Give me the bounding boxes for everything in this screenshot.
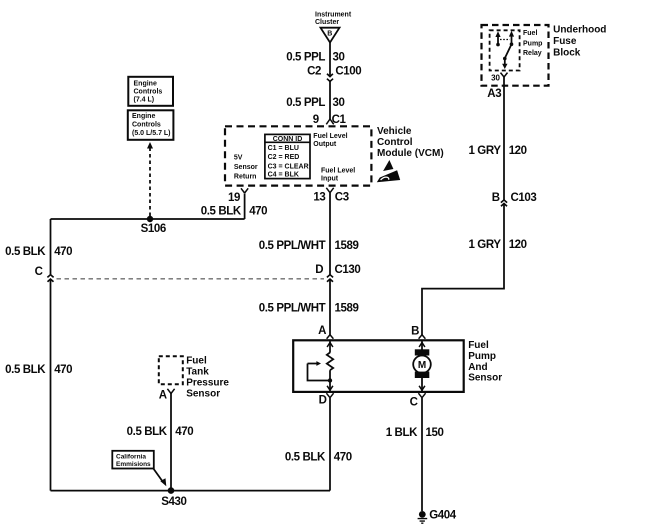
svg-text:Sensor: Sensor [186, 388, 220, 399]
svg-text:C: C [35, 266, 43, 278]
fuel pump and sensor box [293, 340, 464, 392]
relay output arrow down [502, 59, 507, 70]
svg-text:150: 150 [426, 427, 444, 439]
svg-text:Tank: Tank [186, 367, 209, 378]
svg-text:1 BLK: 1 BLK [386, 427, 418, 439]
label fuel tank pressure sensor [186, 356, 229, 400]
motor wire to C terminal [419, 378, 425, 391]
svg-text:0.5 BLK: 0.5 BLK [127, 426, 168, 438]
wire D terminal to bottom wire [329, 398, 331, 491]
svg-text:C103: C103 [511, 192, 537, 204]
connector C male arrow and left wire down [48, 279, 54, 491]
label C node [35, 266, 43, 278]
pin 9 C1 receptacle at VCM [326, 119, 333, 124]
svg-text:C3 = CLEAR: C3 = CLEAR [268, 163, 309, 170]
svg-text:(7.4 L): (7.4 L) [134, 96, 155, 103]
ground G404 [418, 509, 457, 523]
relay link dotted line [500, 39, 510, 41]
pump terminal B receptacle [419, 335, 426, 339]
sender wiper arrow [308, 361, 333, 383]
svg-text:30: 30 [333, 97, 345, 109]
svg-text:120: 120 [509, 145, 527, 157]
svg-text:Sensor: Sensor [234, 164, 258, 171]
fuel tank pressure sensor dashed box [159, 356, 183, 384]
engine controls 7.4L box [128, 77, 173, 106]
label underhood fuse block [553, 25, 606, 59]
svg-text:C3: C3 [335, 192, 349, 204]
instrument cluster label [315, 12, 352, 27]
svg-text:C2: C2 [307, 65, 321, 77]
svg-text:Sensor: Sensor [468, 373, 502, 384]
svg-text:C: C [410, 396, 418, 408]
svg-text:Input: Input [321, 176, 339, 183]
svg-text:470: 470 [249, 205, 267, 217]
svg-text:S106: S106 [141, 223, 166, 235]
label 0.5 PPL/WHT 1589 (upper) [259, 240, 359, 252]
svg-text:470: 470 [175, 426, 193, 438]
fuel pump relay inner dashed box [490, 30, 520, 70]
svg-text:Controls: Controls [134, 89, 163, 96]
label A [318, 325, 326, 337]
svg-text:Control: Control [377, 137, 413, 148]
label A (FTP) [159, 389, 167, 401]
label B C103 [492, 192, 537, 204]
label 9 C1 [313, 114, 347, 126]
label fuel pump and sensor [468, 340, 502, 384]
label 0.5 PPL 30 (upper) [286, 52, 344, 64]
svg-text:Fuse: Fuse [553, 36, 577, 47]
label D C130 [315, 264, 360, 276]
svg-text:G404: G404 [429, 509, 457, 521]
svg-text:Controls: Controls [132, 122, 161, 129]
svg-text:470: 470 [334, 451, 352, 463]
svg-text:Instrument: Instrument [315, 12, 352, 19]
svg-text:Fuel Level: Fuel Level [313, 133, 347, 140]
label 1 GRY 120 (upper) [469, 145, 527, 157]
svg-text:Engine: Engine [132, 113, 155, 120]
label 13 C3 [313, 192, 348, 204]
svg-text:M: M [418, 360, 426, 371]
label 1 GRY 120 (lower) [469, 239, 527, 251]
label 19 [228, 192, 240, 204]
VCM pin 13 C3 receptacle [326, 188, 333, 193]
svg-text:A3: A3 [487, 88, 501, 100]
svg-text:Pump: Pump [523, 41, 542, 48]
label 0.5 BLK 470 (FTP wire) [127, 426, 194, 438]
svg-text:(5.0 L/5.7 L): (5.0 L/5.7 L) [132, 130, 171, 137]
svg-text:19: 19 [228, 192, 240, 204]
label 5V sensor return [234, 155, 258, 181]
svg-text:Fuel Level: Fuel Level [321, 167, 355, 174]
label fuel level input [321, 167, 355, 182]
svg-text:Fuel: Fuel [468, 340, 489, 351]
svg-text:13: 13 [313, 192, 325, 204]
fuse block pin 30 receptacle [501, 73, 508, 77]
wire 0.5 PPL from C100 to VCM pin 9 [329, 81, 331, 119]
pump terminal D receptacle [326, 393, 333, 398]
bottom wire to S430 and D wire [51, 490, 331, 492]
svg-text:470: 470 [54, 246, 72, 258]
svg-text:120: 120 [509, 239, 527, 251]
svg-text:A: A [159, 389, 167, 401]
svg-text:C1: C1 [332, 114, 347, 126]
relay contact arrow right [509, 31, 514, 46]
svg-text:Output: Output [313, 141, 337, 148]
svg-text:Engine: Engine [134, 81, 157, 88]
relay contact arrow left [495, 31, 500, 46]
svg-text:0.5 PPL: 0.5 PPL [286, 97, 325, 109]
svg-text:A: A [318, 325, 326, 337]
svg-text:0.5 BLK: 0.5 BLK [285, 451, 326, 463]
california emmisions arrow [153, 468, 167, 487]
wire 1 GRY from fuse block to C103 [501, 77, 507, 203]
svg-text:C2 = RED: C2 = RED [268, 154, 300, 161]
svg-text:1 GRY: 1 GRY [469, 145, 502, 157]
svg-text:B: B [492, 192, 500, 204]
VCM pin 19 receptacle [241, 188, 248, 193]
svg-text:9: 9 [313, 114, 319, 126]
svg-text:B: B [411, 325, 419, 337]
wire FTP sensor to S430 [170, 394, 172, 491]
label C (pump) [410, 396, 418, 408]
label 0.5 BLK 470 (D wire) [285, 451, 352, 463]
splice S106 [141, 216, 166, 235]
svg-text:0.5 PPL/WHT: 0.5 PPL/WHT [259, 303, 326, 315]
svg-text:0.5 BLK: 0.5 BLK [201, 205, 242, 217]
fuel level sender resistor [327, 353, 333, 371]
svg-text:D: D [319, 394, 327, 406]
svg-text:C100: C100 [335, 65, 361, 77]
label B (pump) [411, 325, 419, 337]
sender wire to D terminal [327, 370, 333, 391]
svg-text:30: 30 [491, 73, 500, 82]
svg-text:30: 30 [333, 52, 345, 64]
svg-text:0.5 PPL/WHT: 0.5 PPL/WHT [259, 240, 326, 252]
svg-text:D: D [315, 264, 323, 276]
label 0.5 BLK 470 (pin 19) [201, 205, 267, 217]
wire 1 BLK from C to G404 [421, 398, 423, 511]
svg-text:Pump: Pump [468, 351, 496, 362]
svg-text:C1 = BLU: C1 = BLU [268, 145, 299, 152]
label 0.5 BLK 470 (left upper) [5, 246, 72, 258]
svg-text:0.5 PPL: 0.5 PPL [286, 52, 325, 64]
wire 0.5 PPL from instrument cluster to C100 [327, 42, 333, 77]
svg-text:1589: 1589 [335, 240, 359, 252]
connector C130 male arrow [327, 279, 333, 335]
dashed wire from S106 to engine controls [147, 142, 153, 216]
splice S430 [161, 487, 186, 508]
svg-text:0.5 BLK: 0.5 BLK [5, 246, 46, 258]
svg-text:Fuel: Fuel [186, 356, 207, 367]
svg-text:Fuel: Fuel [523, 30, 537, 37]
instrument cluster connector triangle B [321, 28, 340, 43]
svg-text:1 GRY: 1 GRY [469, 239, 502, 251]
label 30 [491, 73, 500, 82]
connector C103 male arrow and wire to pump terminal B [422, 204, 507, 336]
label 1 BLK 150 [386, 427, 444, 439]
left wire 0.5 BLK down to C [47, 219, 53, 277]
pump terminal A receptacle [327, 335, 334, 339]
sender wire arrow inside box (A side) [327, 341, 333, 353]
svg-text:C130: C130 [335, 264, 361, 276]
connector C2 C100 [327, 79, 333, 82]
label C2 C100 [307, 65, 361, 77]
svg-text:Block: Block [553, 48, 581, 59]
label Vehicle Control Module (VCM) [377, 126, 444, 159]
label D [319, 394, 327, 406]
svg-text:1589: 1589 [335, 303, 359, 315]
svg-text:Module (VCM): Module (VCM) [377, 148, 444, 159]
svg-text:Pressure: Pressure [186, 378, 229, 389]
svg-text:0.5 BLK: 0.5 BLK [5, 364, 46, 376]
label fuel level output [313, 133, 347, 148]
CONN ID table U1 [265, 134, 310, 178]
svg-text:5V: 5V [234, 155, 243, 162]
svg-text:CONN ID: CONN ID [273, 136, 303, 143]
svg-text:Relay: Relay [523, 50, 542, 57]
label 0.5 PPL 30 (lower) [286, 97, 344, 109]
svg-text:Return: Return [234, 174, 257, 181]
pump motor wire from B [419, 341, 425, 349]
VCM module dashed box [225, 126, 371, 185]
ESD sensitive symbol [377, 160, 400, 182]
FTP sensor pin A receptacle [167, 389, 174, 394]
fuel pump motor M [413, 349, 431, 378]
svg-text:B: B [327, 30, 332, 37]
engine controls 5.0/5.7L box [128, 110, 174, 140]
svg-text:Emmisions: Emmisions [116, 461, 151, 468]
wire 0.5 PPL/WHT from pin 13 to C130 [327, 193, 333, 278]
svg-text:And: And [468, 362, 487, 373]
relay movable contact [503, 44, 512, 60]
wire from VCM pin 19 to S106 horizontal [51, 194, 245, 220]
label A3 [487, 88, 501, 100]
svg-text:California: California [116, 454, 146, 461]
svg-text:S430: S430 [161, 496, 186, 508]
label 0.5 PPL/WHT 1589 (lower) [259, 303, 359, 315]
svg-text:C4 = BLK: C4 = BLK [268, 172, 299, 179]
label 0.5 BLK 470 (left lower) [5, 364, 72, 376]
dashed connector boundary line C130 [57, 278, 325, 280]
svg-text:Vehicle: Vehicle [377, 126, 412, 137]
svg-text:470: 470 [54, 364, 72, 376]
svg-text:Cluster: Cluster [315, 19, 339, 26]
svg-text:Underhood: Underhood [553, 25, 606, 36]
california emmisions callout box [112, 451, 154, 469]
underhood fuse block outer dashed box [482, 25, 549, 86]
pump terminal C receptacle [418, 393, 425, 398]
label fuel pump relay [523, 30, 542, 57]
